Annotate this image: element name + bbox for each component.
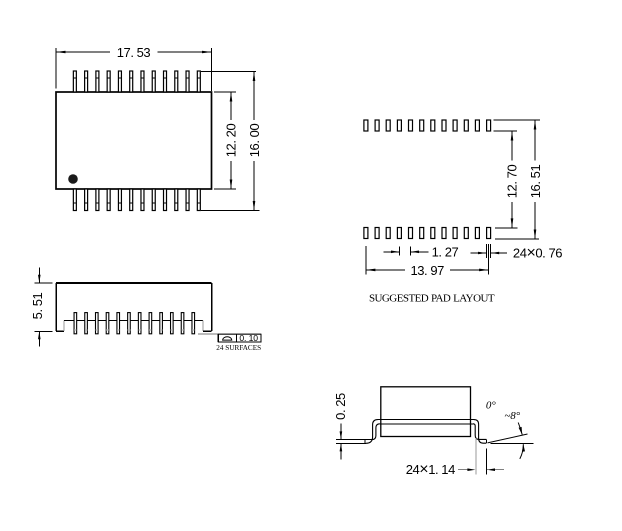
pad top 2	[375, 120, 379, 131]
seating plane datum line	[198, 333, 261, 335]
pad top 12	[487, 120, 491, 131]
lead band top line	[378, 419, 474, 421]
bottom pin 12	[197, 189, 200, 211]
pad bottom 1	[364, 228, 368, 239]
lead band bottom line	[380, 423, 473, 425]
svg-text:5. 51: 5. 51	[30, 292, 45, 319]
svg-text:17. 53: 17. 53	[117, 45, 151, 60]
dimension 24x0.76 pad width	[470, 244, 562, 262]
top pin 6	[130, 71, 133, 92]
bottom pin 9	[164, 189, 167, 211]
pin 1 index dot	[68, 174, 78, 184]
svg-text:12. 70: 12. 70	[504, 165, 519, 199]
pad bottom 5	[409, 228, 413, 239]
pad bottom 9	[453, 228, 457, 239]
bottom pin 3	[96, 189, 99, 211]
0 degree reference line	[491, 443, 534, 445]
bottom pin 7	[141, 189, 144, 211]
pad bottom 2	[375, 228, 379, 239]
svg-text:13. 97: 13. 97	[410, 263, 444, 278]
detail body outline	[381, 387, 471, 437]
side lead 8	[149, 313, 152, 334]
side lead 4	[106, 313, 109, 334]
dimension 16.51	[493, 120, 543, 239]
dimension 12.70	[493, 131, 519, 228]
dimension 16.00	[201, 72, 262, 211]
svg-text:~8°: ~8°	[504, 410, 520, 422]
pad bottom 4	[397, 228, 401, 239]
side lead 6	[128, 313, 131, 334]
side lead 9	[160, 313, 163, 334]
svg-text:24×0. 76: 24×0. 76	[513, 245, 562, 262]
pad bottom 8	[442, 228, 446, 239]
svg-text:12. 20: 12. 20	[223, 124, 238, 158]
bottom pin 4	[107, 189, 110, 211]
top pin 12	[197, 71, 200, 92]
pad bottom 11	[475, 228, 479, 239]
pad bottom 10	[464, 228, 468, 239]
top pin 3	[96, 71, 99, 92]
dimension 1.27 pitch	[384, 245, 459, 260]
left lead inner bend	[372, 424, 380, 440]
angle leader upper	[518, 423, 522, 435]
pad top 7	[431, 120, 435, 131]
dimension 12.20	[214, 92, 238, 189]
pad top 9	[453, 120, 457, 131]
side lead 3	[95, 313, 98, 334]
top pin 4	[107, 71, 110, 92]
pad top 6	[420, 120, 424, 131]
bottom pin 8	[152, 189, 155, 211]
svg-text:SUGGESTED PAD LAYOUT: SUGGESTED PAD LAYOUT	[369, 293, 495, 305]
bottom pin 6	[130, 189, 133, 211]
8 degree lead angle line	[488, 434, 528, 443]
top pin 7	[141, 71, 144, 92]
dimension 5.51	[30, 268, 52, 347]
flatness callout box	[218, 333, 261, 343]
bottom pin 5	[118, 189, 121, 211]
side lead 7	[138, 313, 141, 334]
bottom pin 2	[85, 189, 88, 211]
left lead foot lines / extensions	[336, 439, 372, 441]
svg-text:24×1. 14: 24×1. 14	[406, 461, 455, 478]
svg-text:0. 25: 0. 25	[333, 393, 348, 420]
svg-text:0°: 0°	[486, 399, 497, 411]
bottom pin 11	[186, 189, 189, 211]
bottom pin 10	[175, 189, 178, 211]
bottom pin 1	[73, 189, 76, 211]
pad top 8	[442, 120, 446, 131]
dimension 24x1.14 foot length	[406, 438, 504, 478]
side lead 10	[171, 313, 174, 334]
pad bottom 6	[420, 228, 424, 239]
surface profile symbol	[223, 337, 232, 340]
side lead 1	[74, 313, 77, 334]
pad bottom 12	[487, 228, 491, 239]
pad top 1	[364, 120, 368, 131]
side lead 12	[192, 313, 195, 334]
pad bottom 3	[386, 228, 390, 239]
dimension 0.25 lead thickness	[333, 393, 348, 460]
left lead outer bend	[366, 420, 378, 444]
pad top 3	[386, 120, 390, 131]
right lead toe cap	[485, 439, 487, 443]
top pin 8	[152, 71, 155, 92]
pad top 11	[475, 120, 479, 131]
top pin 1	[73, 71, 76, 92]
side lead 11	[181, 313, 184, 334]
svg-text:24 SURFACES: 24 SURFACES	[216, 344, 261, 352]
svg-text:16. 51: 16. 51	[528, 165, 543, 199]
top pin 2	[85, 71, 88, 92]
angle leader lower	[520, 444, 524, 459]
pad top 5	[409, 120, 413, 131]
pad top 4	[397, 120, 401, 131]
pad top 10	[464, 120, 468, 131]
side view body outline	[56, 283, 212, 331]
svg-text:0. 10: 0. 10	[239, 333, 258, 343]
dimension 13.97	[366, 244, 489, 278]
top pin 11	[186, 71, 189, 92]
right lead inner bend	[473, 424, 486, 440]
top pin 5	[118, 71, 121, 92]
svg-text:1. 27: 1. 27	[432, 245, 459, 260]
top pin 10	[175, 71, 178, 92]
pad bottom 7	[431, 228, 435, 239]
right lead outer bend	[474, 420, 487, 444]
dimension 17.53 top	[56, 45, 212, 91]
side lead 5	[117, 313, 120, 334]
side lead 2	[85, 313, 88, 334]
svg-text:16. 00: 16. 00	[247, 124, 262, 158]
left lead toe cap	[364, 440, 366, 444]
top pin 9	[164, 71, 167, 92]
package body top view	[56, 92, 212, 189]
